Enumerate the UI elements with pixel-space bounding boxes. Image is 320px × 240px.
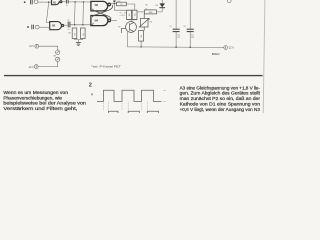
wire N3 out — [111, 3, 117, 5]
svg-text:1M: 1M — [75, 33, 77, 36]
svg-text:N4: N4 — [95, 19, 99, 23]
svg-text:3k3: 3k3 — [117, 1, 120, 3]
svg-text:C5: C5 — [169, 26, 171, 28]
svg-text:+0,6 V liegt, wenn der Ausgang: +0,6 V liegt, wenn der Ausgang von N3 — [180, 107, 261, 112]
flip-flop cross-coupling wires — [92, 5, 112, 19]
wire N1 out — [62, 1, 66, 3]
wire R5 to node — [126, 4, 135, 10]
wire vertical — [82, 2, 85, 25]
diode D2 — [113, 1, 116, 3]
junction — [74, 1, 76, 3]
svg-text:12 V: 12 V — [29, 46, 34, 48]
wire C2 to N4 — [71, 23, 95, 25]
wire to meter — [39, 46, 58, 50]
wire T1 to rail — [127, 31, 129, 47]
svg-text:10k: 10k — [129, 13, 131, 16]
phase marker dotted lines — [104, 102, 148, 111]
svg-text:56k: 56k — [141, 35, 143, 38]
resistor R3 — [127, 10, 132, 19]
svg-text:Phasenverschiebungen, wie: Phasenverschiebungen, wie — [3, 95, 62, 100]
junction — [74, 24, 76, 26]
decoupling wire — [175, 0, 177, 29]
left column text — [3, 90, 86, 111]
wire C1 to N3 — [69, 1, 93, 3]
terminal 12V — [224, 46, 228, 50]
wire resistor bottoms — [127, 19, 137, 21]
wire B to N2 — [39, 26, 50, 28]
terminal top right cut — [227, 0, 231, 3]
supply rail 12V — [128, 46, 224, 49]
meter M1 — [56, 50, 60, 54]
svg-text:100k: 100k — [148, 12, 152, 14]
junction — [82, 24, 84, 26]
capacitor C5 — [173, 29, 180, 31]
wire resistors to ground — [75, 39, 83, 40]
svg-text:R6: R6 — [145, 5, 147, 7]
wire N4 out stub — [111, 19, 118, 21]
svg-text:C2: C2 — [67, 20, 69, 22]
resistor R1 — [72, 28, 77, 39]
right column text — [180, 85, 261, 112]
gate N4 — [91, 16, 111, 26]
transistor T1 — [121, 22, 136, 33]
junction — [83, 1, 85, 3]
svg-text:Wenn es um Messungen von: Wenn es um Messungen von — [3, 90, 68, 95]
junction — [114, 3, 116, 5]
junction — [140, 46, 142, 48]
column rule — [4, 75, 263, 76]
wire N2 out — [64, 24, 68, 26]
svg-text:= 4093: = 4093 — [120, 15, 125, 17]
svg-text:12 V: 12 V — [229, 47, 234, 50]
potentiometer P2 — [139, 14, 149, 31]
wire A down to N2 top input — [46, 2, 49, 22]
svg-text:gen. Zum Abgleich des Gerätes: gen. Zum Abgleich des Gerätes stellt — [180, 91, 261, 96]
waveform trace A — [97, 90, 162, 101]
page border right — [263, 0, 265, 113]
diode D1 — [157, 0, 166, 12]
svg-text:Verstärkern und Filtern geht,: Verstärkern und Filtern geht, — [3, 106, 77, 111]
svg-text:man zunächst P2 so ein, daß an: man zunächst P2 so ein, daß an der — [180, 96, 261, 101]
junction node A — [48, 1, 50, 3]
wire A to N1 — [38, 1, 52, 3]
wire vertical — [74, 2, 77, 25]
resistor R6 — [145, 10, 157, 14]
input B terminal — [27, 25, 39, 30]
wire R6 left — [137, 11, 145, 13]
waveform trace B — [108, 111, 158, 113]
svg-text:1n: 1n — [68, 29, 70, 31]
decoupling wire — [189, 0, 191, 29]
svg-text:T1*: T1* — [118, 26, 121, 28]
resistor R4 — [132, 10, 137, 19]
svg-text:1k: 1k — [145, 8, 147, 10]
svg-text:A3 eine Gleichspannung von +1,: A3 eine Gleichspannung von +1,8 V lie- — [180, 85, 261, 90]
resistor R2 — [81, 28, 86, 39]
svg-text:M1: M1 — [54, 55, 57, 57]
svg-text:C6: C6 — [184, 26, 186, 28]
svg-text:2: 2 — [89, 82, 92, 88]
svg-text:Kathode von D1 eine Spannung v: Kathode von D1 eine Spannung von — [180, 101, 261, 106]
wire meter to terminal — [38, 62, 58, 67]
svg-text:beispielsweise bei der Analyse: beispielsweise bei der Analyse von — [3, 101, 86, 106]
capacitor C1 — [66, 0, 68, 4]
ground — [76, 43, 81, 46]
resistor R7 — [139, 31, 144, 42]
input A terminal — [24, 0, 38, 4]
svg-text:1n: 1n — [66, 5, 68, 7]
capacitor C2 — [68, 22, 70, 28]
meter terminal + — [35, 44, 39, 48]
wire node rail — [114, 9, 137, 11]
svg-text:*sel. P-Kanal FET: *sel. P-Kanal FET — [91, 64, 121, 68]
svg-text:N3: N3 — [95, 3, 99, 7]
svg-text:1M: 1M — [83, 33, 85, 36]
svg-text:10k: 10k — [134, 13, 136, 16]
meter terminal - — [34, 65, 38, 69]
gate N2 — [50, 22, 64, 30]
gate N1 — [52, 0, 62, 5]
meter M1 lower — [56, 57, 60, 61]
wire junction down — [113, 4, 115, 11]
svg-text:84012-2: 84012-2 — [212, 53, 220, 56]
svg-text:1k: 1k — [120, 4, 122, 6]
waveform level ticks — [163, 90, 165, 101]
svg-text:-12 V: -12 V — [28, 67, 34, 69]
capacitor C6 — [187, 29, 194, 31]
resistor R5 — [117, 2, 127, 6]
gate N3 — [91, 1, 111, 11]
